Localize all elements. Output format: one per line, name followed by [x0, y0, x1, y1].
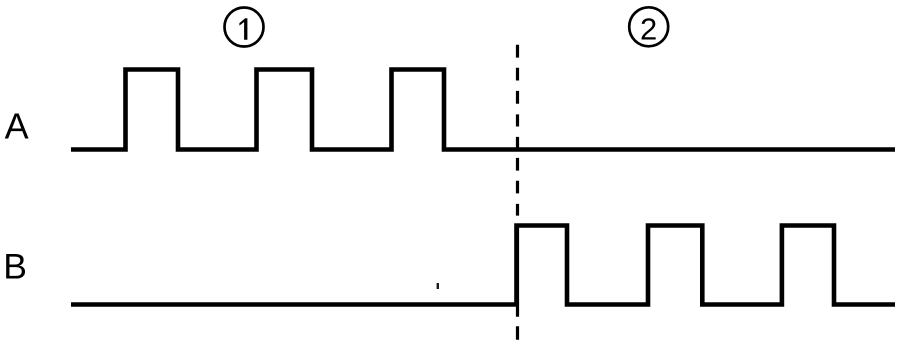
stray tick mark artifact [437, 283, 439, 289]
svg-text:2: 2 [640, 12, 657, 47]
svg-text:B: B [3, 247, 27, 287]
phase marker circle 2 [629, 7, 668, 46]
waveform A trace [71, 70, 895, 150]
phase marker label 1 [239, 18, 247, 40]
waveform B trace [71, 226, 895, 305]
phase marker circle 1 [225, 8, 264, 47]
phase divider dashed line [516, 45, 519, 340]
svg-text:A: A [5, 106, 29, 147]
